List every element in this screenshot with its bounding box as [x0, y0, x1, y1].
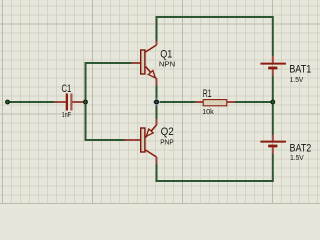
transistor Q1 emitter pin: [156, 79, 158, 86]
battery BAT1 pin top: [272, 56, 274, 63]
transistor Q1 base pin: [132, 62, 141, 64]
wire: Q2 collector down: [156, 165, 158, 182]
battery BAT2 pin bottom: [272, 147, 274, 154]
battery BAT1: [260, 64, 286, 68]
node A: C1/base junction: [83, 100, 88, 105]
svg-text:BAT1: BAT1: [289, 63, 311, 75]
wire: junction down to Q2 base: [86, 103, 125, 140]
svg-text:BAT2: BAT2: [290, 143, 312, 155]
svg-text:1.5V: 1.5V: [290, 77, 304, 84]
svg-text:1.5V: 1.5V: [290, 155, 304, 162]
wire: Q1 emitter node to R1: [157, 101, 196, 103]
wire: left input to C1: [8, 101, 54, 103]
wire: junction up to Q1 base: [86, 63, 132, 101]
wire: junction down to BAT2: [272, 103, 274, 135]
wire: Q1 emitter down to junction: [156, 86, 158, 102]
wire: right column BAT2 down to bottom rail: [272, 154, 274, 182]
svg-text:Q1: Q1: [160, 48, 172, 60]
node C: battery mid junction: [270, 100, 275, 105]
svg-text:PNP: PNP: [160, 140, 174, 147]
transistor Q2 emitter pin: [156, 119, 158, 126]
svg-text:Q2: Q2: [161, 126, 174, 138]
capacitor C1 pin left: [54, 101, 66, 103]
resistor R1 pin right: [227, 101, 235, 103]
svg-text:R1: R1: [203, 88, 212, 100]
battery BAT2 pin top: [272, 135, 274, 141]
transistor Q1: [141, 45, 157, 79]
transistor Q2 base pin: [125, 139, 141, 141]
wire: junction down to Q2 emitter: [156, 103, 158, 119]
resistor R1: [203, 100, 227, 106]
transistor Q2: [141, 125, 157, 157]
wire: Q1 collector up: [156, 16, 158, 41]
wire: bottom rail: [156, 180, 273, 182]
wire: right column down to BAT1: [272, 16, 274, 56]
svg-text:1nF: 1nF: [62, 112, 71, 119]
svg-text:NPN: NPN: [159, 62, 175, 69]
battery BAT2: [260, 142, 286, 146]
node B: emitter junction: [153, 98, 161, 106]
wire: R1 to battery column: [235, 101, 273, 103]
node: input terminal dot: [5, 100, 10, 105]
transistor Q1 collector pin: [156, 41, 158, 45]
wire: BAT1 to mid junction: [272, 76, 274, 101]
capacitor C1 pin right: [72, 101, 84, 103]
transistor Q2 collector pin: [156, 157, 158, 165]
resistor R1 pin left: [195, 101, 203, 103]
capacitor C1: [66, 94, 73, 111]
wire: top rail: [156, 16, 273, 18]
svg-text:10k: 10k: [202, 109, 214, 116]
battery BAT1 pin bottom: [272, 69, 274, 76]
svg-text:C1: C1: [62, 83, 72, 95]
